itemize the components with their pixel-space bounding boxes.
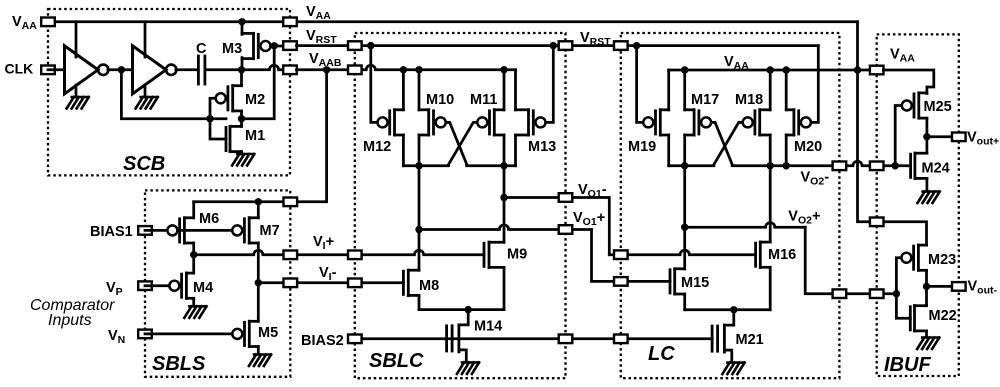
wire feedback down to M1 gate	[210, 119, 226, 139]
wire LC left output node	[669, 164, 714, 167]
SBLC block dotted border	[355, 33, 566, 378]
wire VI- line	[258, 281, 403, 284]
wire M14 source jog to ground	[459, 350, 466, 362]
svg-text:M2: M2	[245, 92, 265, 108]
transistor M24	[909, 154, 912, 177]
junction dot IBUF lower input	[893, 290, 900, 297]
svg-text:LC: LC	[648, 343, 675, 365]
wire M23 gate stem	[896, 258, 901, 294]
wire M25 gate stem	[895, 106, 901, 166]
ground under inverter 1	[67, 97, 89, 109]
svg-text:M4: M4	[193, 280, 213, 296]
terminal VI+ out of SBLS	[284, 251, 298, 260]
terminal LC upper input	[614, 250, 628, 259]
wire M13 drain down	[514, 135, 517, 166]
ground under M24	[918, 192, 940, 204]
wire VO2+ line	[685, 223, 806, 228]
wire LC VAA rail	[669, 69, 884, 72]
wire VO1+ jog down into LC	[592, 230, 671, 282]
svg-text:M6: M6	[199, 211, 219, 227]
svg-text:C: C	[196, 41, 207, 57]
junction dot M20 drain	[783, 162, 790, 169]
wire inverter2 power	[144, 22, 147, 57]
transistor M18	[743, 117, 753, 127]
transistor M5	[232, 329, 242, 339]
terminal VAA out of SCB	[283, 18, 297, 27]
junction dot IBUF upper input	[892, 162, 899, 169]
terminal VAA into IBUF	[870, 66, 884, 75]
junction dot VAAB at cap output	[238, 66, 245, 73]
junction dot M20 top on LC VAA	[783, 66, 790, 73]
wire M11 drain down then output stem	[503, 135, 506, 242]
transistor M13	[536, 117, 546, 127]
svg-text:M21: M21	[736, 332, 764, 348]
transistor M7	[232, 225, 242, 235]
wire M11 cross-couple diagonal	[448, 122, 477, 165]
terminal VAAB out of SCB	[283, 66, 297, 75]
wire M10 source up	[418, 70, 421, 110]
terminal VO2- out of LC	[833, 162, 847, 171]
wire Vout+ to terminal	[927, 135, 959, 138]
junction dot VRST to M13 gate	[550, 42, 557, 49]
wire M1 drain up	[240, 119, 243, 127]
wire VI+ line	[194, 250, 484, 255]
svg-text:M15: M15	[681, 275, 709, 291]
svg-text:M24: M24	[922, 161, 950, 177]
wire M2 source to VAAB node	[240, 70, 243, 86]
wire M1 source down	[240, 152, 243, 154]
wire M22 source to ground	[925, 331, 928, 337]
IBUF block dotted border	[877, 34, 959, 376]
terminal M23 source feed into IBUF	[870, 218, 884, 227]
svg-text:Inputs: Inputs	[48, 312, 92, 329]
terminal CLK	[41, 66, 55, 75]
svg-text:M17: M17	[691, 92, 719, 108]
wire feedback from inverter node to gates	[121, 70, 226, 119]
svg-text:M10: M10	[426, 92, 454, 108]
junction dot VI- node	[255, 279, 262, 286]
wire SBLC tail	[419, 308, 504, 311]
terminal VRST into LC	[614, 41, 628, 50]
ground under M4	[184, 306, 206, 318]
ground under inverter 2	[136, 97, 158, 109]
wire M21 source jog to ground	[724, 350, 731, 362]
terminal SBLS top node	[284, 198, 298, 207]
terminal VP	[138, 281, 152, 290]
junction dot Vout- node	[923, 283, 930, 290]
transistor M17	[701, 117, 711, 127]
wire M3 drain to VAA rail	[241, 22, 244, 35]
terminal VO2+ out of LC	[833, 289, 847, 298]
terminal VN	[138, 330, 152, 339]
terminal VRST out of SCB	[283, 41, 297, 50]
wire LC tail	[685, 308, 771, 311]
wire M25 drain down to Vout+	[926, 118, 929, 137]
transistor M9	[483, 243, 486, 266]
terminal VI+ into SBLC	[348, 251, 362, 260]
wire SBLC left output node	[403, 164, 448, 167]
svg-text:M13: M13	[528, 139, 556, 155]
wire M19 source up to LC VAA rail corner	[667, 70, 670, 110]
wire M13 source up to VAAB corner	[514, 70, 517, 110]
ground under M14	[457, 362, 479, 374]
terminal Vout+	[952, 133, 966, 142]
junction dot M12 top on VAAB	[400, 66, 407, 73]
wire M17 cross-couple diagonal	[711, 122, 732, 165]
wire VO1+ line	[419, 225, 592, 230]
ground under M22	[917, 338, 939, 350]
wire M10 drain down then output stem	[418, 135, 421, 270]
wire M3 gate node to VRST terminal	[271, 45, 291, 48]
junction dot VO1- branch	[500, 194, 507, 201]
terminal LC lower input	[614, 277, 628, 286]
svg-text:SBLS: SBLS	[152, 353, 206, 375]
wire M21 drain jog	[724, 310, 733, 325]
junction dot Vout+ node	[923, 133, 930, 140]
wire inverter2 ground stub	[144, 85, 147, 97]
wire VO2+ jog down and out	[805, 227, 896, 294]
wire feedback up to M2 gate	[210, 98, 216, 118]
svg-text:BIAS2: BIAS2	[301, 333, 344, 349]
transistor M25	[902, 101, 912, 111]
transistor M2	[216, 93, 226, 103]
junction dot right node M18 stem	[767, 162, 774, 169]
wire M14 drain jog	[459, 310, 468, 325]
svg-text:BIAS1: BIAS1	[90, 224, 133, 240]
terminal VO2- into IBUF	[870, 162, 884, 171]
wire BIAS1 to M6 gate	[145, 229, 167, 232]
transistor M21 body	[723, 325, 726, 352]
LC block dotted border	[621, 33, 840, 378]
wire M24 drain up to Vout+	[926, 137, 929, 153]
terminal VRST out of SBLC	[559, 41, 573, 50]
junction dot M6 source on VI+ line	[190, 251, 197, 258]
junction dot VRST to M19 gate	[633, 42, 640, 49]
wire M3 source to VAAB	[241, 58, 244, 70]
wire M6 gate through to M7 gate	[178, 229, 232, 232]
wire M9 source down	[503, 267, 506, 309]
wire M11 source up	[503, 70, 506, 110]
wire M4 drain up to VI+ node	[192, 255, 195, 273]
terminal VO1- out of SBLC	[559, 193, 573, 202]
junction dot M10 top on VAAB	[415, 66, 422, 73]
wire VO1- line	[504, 198, 609, 255]
wire M22 gate jog	[896, 294, 910, 319]
wire M20 source up	[785, 70, 788, 110]
wire M12 source up	[402, 70, 405, 110]
terminal BIAS2 into LC	[614, 335, 628, 344]
junction dot M11 top on VAAB	[500, 66, 507, 73]
svg-text:SCB: SCB	[123, 153, 165, 175]
wire IBUF VAA rail to M25	[883, 70, 933, 94]
transistor M22	[909, 307, 912, 330]
wire M12 gate from VRST	[371, 46, 378, 123]
wire SBLS top node to VAAB	[194, 70, 327, 202]
transistor M6	[167, 225, 177, 235]
wire M6 source down to VI+ node	[192, 243, 195, 255]
svg-text:IBUF: IBUF	[884, 354, 931, 376]
wire M2 drain down	[240, 111, 243, 119]
transistor M3	[261, 41, 271, 51]
ground under M1	[232, 154, 254, 166]
junction dot VO2+ branch	[681, 224, 688, 231]
svg-text:SBLC: SBLC	[369, 350, 424, 372]
ground under M5	[249, 355, 271, 367]
svg-text:M12: M12	[363, 139, 391, 155]
terminal VAA input	[41, 18, 55, 27]
wire CLK to inverter	[48, 68, 65, 71]
wire M15 source down	[683, 294, 686, 310]
wire M24 source to ground	[926, 178, 929, 191]
wire inverter1 ground stub	[75, 85, 78, 97]
junction dot M14 drain on tail	[465, 306, 472, 313]
svg-text:M3: M3	[222, 41, 242, 57]
wire cap to VAAB node	[206, 65, 290, 70]
transistor M8	[402, 271, 405, 294]
svg-text:M8: M8	[419, 278, 439, 294]
terminal BIAS2 into SBLC	[348, 335, 362, 344]
transistor M11	[477, 117, 487, 127]
transistor M4	[169, 281, 179, 291]
svg-text:M14: M14	[474, 319, 502, 335]
wire M20 gate to VRST corner	[811, 46, 818, 123]
junction dot left node M10 stem	[415, 162, 422, 169]
svg-text:M11: M11	[470, 92, 497, 108]
terminal VI- out of SBLS	[284, 279, 298, 288]
wire M5 source to ground	[257, 347, 260, 355]
wire M20 drain down	[785, 135, 788, 166]
wire VAAB rail into SBLC	[297, 65, 516, 70]
svg-text:VI-: VI-	[319, 265, 337, 283]
transistor M12	[378, 117, 388, 127]
junction dot right node M11 stem	[500, 162, 507, 169]
transistor M20	[801, 117, 811, 127]
wire VN to M5 gate	[145, 333, 232, 336]
junction dot M3 gate node	[271, 42, 278, 49]
wire M18 drain down then M16 stem	[769, 135, 772, 242]
svg-text:M25: M25	[924, 99, 952, 115]
wire M5 drain up to VI- node	[257, 283, 260, 322]
transistor M15	[669, 270, 672, 293]
junction dot VO1+ branch	[415, 226, 422, 233]
svg-text:M7: M7	[260, 223, 280, 239]
transistor M19	[643, 117, 653, 127]
wire M17 source up	[683, 70, 686, 110]
wire VRST rail SCB to LC	[297, 44, 819, 47]
svg-text:M5: M5	[258, 325, 278, 341]
transistor M16	[754, 243, 757, 266]
wire inverter1 to inverter2	[108, 68, 133, 71]
wire M23 drain down to Vout-	[925, 271, 928, 287]
wire M16 source down	[769, 267, 772, 310]
terminal VO2+ into IBUF	[870, 289, 884, 298]
capacitor C plates	[197, 56, 200, 84]
wire inverter1 power	[75, 22, 78, 57]
terminal BIAS2 out of SBLC	[559, 335, 573, 344]
wire VAA drop from top rail	[858, 22, 927, 245]
svg-text:M1: M1	[245, 128, 265, 144]
wire M4 source to ground	[192, 298, 195, 306]
wire M19 gate from VRST	[637, 46, 644, 123]
wire M19 drain down	[667, 135, 670, 166]
wire M12 drain down	[402, 135, 405, 166]
node A dot between inverters	[118, 66, 125, 73]
wire M17 drain down then stem	[683, 135, 686, 269]
wire M3 gate to M1/M2 drain	[242, 46, 275, 119]
junction dot SBLS top node at VAAB rail	[323, 66, 330, 73]
terminal VI- into SBLC	[348, 279, 362, 288]
wire SBLC right output node	[467, 164, 516, 167]
wire M22 drain up to Vout-	[925, 286, 928, 305]
terminal VO1+ out of SBLC	[559, 225, 573, 234]
junction dot M17 top on LC VAA	[681, 66, 688, 73]
junction dot M18 top on LC VAA	[767, 66, 774, 73]
svg-text:M16: M16	[768, 247, 796, 263]
ground under M21	[722, 363, 744, 375]
wire VAA top rail	[48, 20, 858, 23]
junction dot feedback node	[206, 115, 213, 122]
svg-text:M20: M20	[794, 139, 822, 155]
transistor M23	[901, 253, 911, 263]
wire VP to M4 gate	[145, 284, 169, 287]
junction dot M3 on VAA rail	[238, 18, 245, 25]
wire M7 drain top	[257, 202, 260, 218]
terminal VRST into SBLC	[348, 41, 362, 50]
wire BIAS2 rail	[361, 337, 712, 340]
junction dot VAA drop at LC-IBUF rail	[854, 66, 861, 73]
transistor M14 body	[457, 325, 460, 352]
wire M13 gate from VRST	[546, 46, 554, 123]
junction dot M7 top	[255, 198, 262, 205]
wire M7 source down to VI- node	[257, 243, 260, 283]
wire LC right output node VO2-	[732, 161, 911, 166]
wire M6 drain top to SBLS top node	[192, 202, 195, 218]
svg-text:CLK: CLK	[5, 61, 34, 77]
wire M18 cross-couple diagonal	[714, 122, 743, 165]
wire inverter2 to capacitor	[176, 68, 197, 71]
svg-text:M19: M19	[628, 139, 656, 155]
terminal BIAS1	[138, 226, 152, 235]
wire M10 cross-couple diagonal	[446, 122, 467, 165]
transistor M10	[436, 117, 446, 127]
wire M8 source down	[418, 295, 421, 309]
terminal VAAB into SBLC	[348, 66, 362, 75]
inverter 2	[133, 46, 167, 94]
wire M18 source up	[769, 70, 772, 110]
svg-text:M22: M22	[929, 308, 957, 324]
inverter 1	[65, 46, 99, 94]
junction dot M1/M2 drains	[238, 115, 245, 122]
junction dot VRST to M12 gate	[367, 42, 374, 49]
junction dot M21 drain on tail	[730, 306, 737, 313]
wire Vout- to terminal	[927, 285, 959, 288]
svg-text:M18: M18	[735, 92, 763, 108]
terminal Vout-	[952, 282, 966, 291]
SBLS block dotted border	[145, 190, 290, 376]
transistor M1	[225, 127, 228, 150]
svg-text:M23: M23	[928, 252, 956, 268]
junction dot left node M17 stem	[681, 162, 688, 169]
svg-text:M9: M9	[507, 247, 527, 263]
SCB block dotted border	[48, 9, 290, 175]
